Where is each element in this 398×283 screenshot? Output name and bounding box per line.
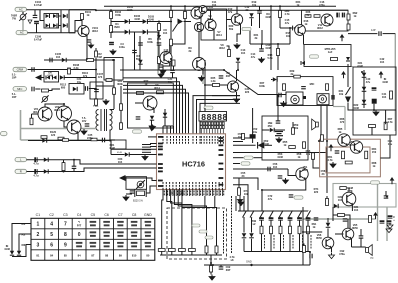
rp102 dot bbox=[139, 183, 141, 185]
svg-text:4.7k: 4.7k bbox=[284, 12, 290, 16]
connector J102 bbox=[16, 31, 28, 35]
ground GND t5 bbox=[234, 43, 240, 49]
ground GND l3 bbox=[150, 125, 156, 131]
wire netR3b bbox=[265, 144, 273, 146]
connector J104 bbox=[13, 87, 27, 91]
capacitor C114 bbox=[257, 11, 262, 13]
wire dj1 t bbox=[327, 218, 329, 223]
wire d161 in bbox=[271, 79, 273, 81]
wire ladderv b1 bbox=[216, 253, 218, 255]
wire rz1 t bbox=[292, 122, 294, 128]
power arrow VCC g1 bbox=[379, 71, 384, 78]
resistor R137 bbox=[30, 118, 33, 125]
svg-text:9013: 9013 bbox=[92, 29, 98, 33]
wire r151 t bbox=[63, 160, 65, 163]
wire d105 bars bbox=[68, 10, 70, 33]
wire bus link x96 bbox=[95, 9, 97, 12]
wire cj1 v bbox=[360, 229, 362, 236]
label LX27 bbox=[87, 133, 93, 140]
wire v107 col bbox=[210, 10, 212, 19]
wire y190 bbox=[262, 189, 303, 191]
ground GND b2 bbox=[237, 198, 242, 203]
junction N32 bbox=[373, 109, 375, 111]
svg-text:10u: 10u bbox=[253, 130, 258, 134]
wire gray audio link bbox=[344, 107, 346, 131]
diode D111 bbox=[157, 35, 161, 39]
resistor R149b bbox=[172, 60, 175, 66]
wire x262 dn bbox=[261, 190, 263, 211]
label L-C132 bbox=[33, 174, 39, 178]
wire ps out top bbox=[69, 9, 96, 11]
svg-text:C5: C5 bbox=[91, 213, 96, 217]
diode D127 bbox=[42, 138, 46, 142]
wire gray q17 drop bbox=[202, 64, 204, 84]
junction N33 bbox=[386, 196, 388, 198]
diode D141 bbox=[10, 251, 14, 255]
capacitor C107 bbox=[87, 40, 92, 42]
resistor R16v0 bbox=[205, 246, 208, 253]
svg-text:10k: 10k bbox=[252, 3, 257, 7]
wire x262 t bbox=[261, 30, 263, 44]
capacitor C111 bbox=[159, 65, 164, 67]
wire xtal top bbox=[126, 178, 157, 181]
diode D105 bbox=[63, 14, 67, 18]
wire J102 feed bbox=[28, 32, 76, 34]
wire v136 emit bbox=[331, 248, 333, 253]
display pins bbox=[201, 129, 223, 134]
ground GND h1 bbox=[330, 162, 336, 168]
label L-V101 bbox=[92, 26, 99, 33]
capacitor C122 bbox=[32, 67, 34, 72]
junction N1 bbox=[170, 5, 172, 7]
label LX49 bbox=[349, 140, 355, 147]
ground GND m4 bbox=[283, 178, 289, 184]
label LX22 bbox=[82, 71, 89, 78]
svg-text:IN40: IN40 bbox=[114, 25, 120, 29]
resistor R175 bbox=[307, 226, 310, 234]
wire v105 base bbox=[159, 57, 160, 59]
label LX51 bbox=[338, 127, 343, 134]
wire cz1 v bbox=[277, 116, 279, 121]
wire h top1 bbox=[385, 110, 387, 124]
wire v135 base bbox=[335, 233, 344, 235]
svg-text:87: 87 bbox=[91, 253, 94, 257]
wire d107 r bbox=[129, 21, 142, 23]
resistor R185 bbox=[294, 75, 301, 78]
transistor V104 bbox=[194, 22, 203, 31]
label LX91 bbox=[338, 195, 343, 202]
wire r107 link bbox=[158, 31, 160, 36]
capacitor C109 bbox=[157, 43, 162, 45]
diode D115 bbox=[293, 26, 298, 31]
capacitor CJ3b bbox=[310, 254, 312, 259]
label LX5 bbox=[164, 48, 169, 55]
label LX74 bbox=[265, 43, 271, 50]
wire v124 base bbox=[135, 102, 143, 104]
label LX75 bbox=[285, 18, 290, 25]
box frame F2 bbox=[317, 94, 329, 105]
wire y95 mid bbox=[212, 95, 240, 97]
wire y33 cap bbox=[348, 33, 377, 35]
label LX33 bbox=[245, 87, 250, 94]
wire netR5 bbox=[233, 157, 244, 159]
svg-text:10k: 10k bbox=[244, 192, 249, 196]
transistor V107 bbox=[205, 19, 216, 30]
resistor R140 bbox=[63, 139, 69, 142]
label LX50 bbox=[372, 147, 377, 154]
IC left pin labels bbox=[158, 136, 163, 187]
capacitor C155 bbox=[306, 217, 311, 220]
label LX88 bbox=[277, 152, 283, 159]
svg-text:470u: 470u bbox=[339, 252, 345, 256]
svg-text:4.7u: 4.7u bbox=[33, 162, 39, 166]
svg-text:0: 0 bbox=[78, 232, 81, 238]
svg-text:47u: 47u bbox=[366, 80, 371, 84]
svg-text:5.6k: 5.6k bbox=[267, 56, 273, 60]
power arrow VCC f1 bbox=[341, 71, 346, 78]
keypad row3 keys bbox=[37, 242, 152, 249]
svg-text:300k: 300k bbox=[117, 82, 123, 86]
wire netR1 bbox=[233, 137, 253, 139]
svg-text:3: 3 bbox=[37, 242, 40, 248]
label LX16 bbox=[119, 42, 125, 49]
wire v131 emit bbox=[303, 179, 306, 190]
wire xtal bot bbox=[126, 193, 132, 195]
capacitor C135 bbox=[138, 43, 143, 45]
net label NET p3 bbox=[294, 196, 303, 199]
svg-text:120: 120 bbox=[51, 133, 56, 137]
wire v122-v123 bbox=[64, 121, 67, 127]
resistor RZ4 bbox=[312, 153, 315, 160]
svg-text:4: 4 bbox=[50, 221, 53, 227]
svg-text:9014: 9014 bbox=[54, 108, 60, 112]
switch S6 bbox=[289, 211, 293, 219]
label str0 bbox=[264, 235, 265, 249]
svg-text:GND: GND bbox=[246, 260, 252, 264]
resistor R143 bbox=[120, 123, 123, 130]
label LX9 bbox=[265, 12, 271, 19]
resistor R187 bbox=[326, 84, 329, 91]
keypad row4 keys bbox=[36, 253, 149, 257]
diode D125 bbox=[73, 87, 77, 91]
wire v106 emit bbox=[202, 70, 204, 75]
wire diag bbox=[224, 70, 286, 95]
wire ladder tail bbox=[210, 255, 212, 265]
wire z y130b bbox=[274, 129, 285, 131]
wire ds top bbox=[204, 108, 206, 112]
wire strings bot bbox=[244, 251, 310, 253]
junction N5 bbox=[95, 9, 97, 11]
wire c119 r bbox=[383, 33, 396, 35]
wire r117 t bbox=[279, 6, 281, 10]
ground GND b1 bbox=[209, 275, 215, 281]
label L-V135 bbox=[352, 223, 358, 230]
svg-text:100k: 100k bbox=[259, 84, 265, 88]
wire r169 b bbox=[210, 272, 212, 275]
svg-text:9012: 9012 bbox=[219, 46, 225, 50]
diode D118 bbox=[301, 61, 305, 65]
label str3 bbox=[293, 235, 294, 249]
arrow play bbox=[178, 19, 184, 25]
svg-text:12P: 12P bbox=[371, 28, 376, 32]
wire c123 r bbox=[35, 88, 40, 90]
capacitor C115 bbox=[259, 49, 264, 51]
wire v101 to y60 bbox=[86, 42, 88, 60]
resistor RZ3 bbox=[303, 142, 306, 149]
svg-text:10P: 10P bbox=[12, 76, 17, 80]
wire bus drop x271 bbox=[270, 6, 272, 70]
svg-text:80: 80 bbox=[146, 253, 149, 257]
wire v107 emit bbox=[213, 30, 215, 41]
net label NET p1 bbox=[244, 156, 253, 159]
IC top pin labels bbox=[163, 136, 224, 144]
label L-G bbox=[382, 77, 388, 84]
capacitor C167 bbox=[332, 95, 334, 100]
wire ci3 v bbox=[385, 191, 387, 196]
svg-text:104: 104 bbox=[163, 31, 168, 35]
resistor R160 bbox=[158, 249, 165, 252]
resistor R174 bbox=[298, 226, 301, 234]
net label PL2 bbox=[199, 230, 207, 233]
net label PL1 bbox=[192, 224, 200, 227]
resistor RH4 bbox=[384, 122, 387, 130]
wire bridge bot bbox=[59, 25, 62, 27]
svg-text:OTE: OTE bbox=[347, 189, 353, 193]
label LX28 bbox=[50, 130, 57, 137]
transistor V121 bbox=[38, 107, 52, 121]
switch SG bbox=[346, 87, 351, 95]
wire sw1 t bbox=[251, 210, 253, 213]
capacitor C150 bbox=[259, 217, 264, 220]
label LX76 bbox=[212, 0, 217, 7]
wire netR6 bbox=[233, 163, 240, 165]
wire v108 base bbox=[227, 19, 232, 21]
wire audio h232 bbox=[303, 231, 322, 233]
switch S-top bbox=[173, 24, 178, 32]
svg-text:9: 9 bbox=[64, 242, 67, 248]
wire h r edge bbox=[380, 135, 390, 158]
wire str1 c bbox=[270, 234, 272, 252]
label L-J103 bbox=[12, 73, 17, 80]
svg-text:10u: 10u bbox=[388, 142, 393, 146]
wire c160 v bbox=[252, 108, 254, 143]
label LX3 bbox=[163, 28, 168, 35]
wire RT101 stub bbox=[22, 12, 24, 14]
resistor R186 bbox=[283, 84, 286, 91]
wire dio1 b bbox=[251, 239, 253, 252]
svg-text:56k: 56k bbox=[136, 57, 141, 61]
svg-text:104: 104 bbox=[338, 198, 343, 202]
switch S7 bbox=[298, 211, 302, 219]
svg-text:MIC: MIC bbox=[17, 87, 22, 91]
label L-Z1 bbox=[268, 121, 273, 128]
junction N7 bbox=[170, 21, 172, 23]
transistor V123 bbox=[67, 120, 81, 134]
junction N2 bbox=[210, 264, 212, 266]
wire r116 b bbox=[277, 56, 279, 71]
wire netR7 bbox=[233, 168, 288, 170]
svg-text:8: 8 bbox=[201, 112, 206, 122]
diode DI1 bbox=[334, 204, 338, 208]
wire v137 emit bbox=[351, 204, 353, 211]
box frame Z bbox=[262, 116, 308, 160]
diode D104 bbox=[53, 24, 57, 28]
label LX8 bbox=[245, 5, 250, 12]
box frame X2 bbox=[126, 177, 147, 190]
resistor R101 bbox=[81, 14, 84, 20]
svg-text:8050: 8050 bbox=[352, 226, 358, 230]
label LX45 bbox=[241, 171, 246, 178]
diode D124 bbox=[60, 75, 64, 79]
svg-text:10V: 10V bbox=[82, 119, 87, 123]
label L-trio bbox=[82, 116, 87, 123]
wire netR8 bbox=[233, 178, 258, 190]
wire g v bbox=[363, 70, 365, 108]
wire T101 bot bbox=[109, 130, 112, 141]
resistor RJ2 bbox=[303, 246, 306, 253]
junction N22 bbox=[204, 84, 206, 86]
wire ic pin2 bbox=[150, 143, 157, 145]
label L-C131 bbox=[33, 162, 39, 166]
wire v125 emit bbox=[236, 92, 238, 97]
box frame D2 bbox=[69, 84, 84, 95]
svg-text:4.7u: 4.7u bbox=[33, 174, 39, 178]
label L-V124 bbox=[154, 83, 160, 90]
ground GND i2 bbox=[387, 223, 393, 229]
svg-text:1M: 1M bbox=[98, 55, 102, 59]
junction f2 bbox=[303, 96, 306, 99]
wire netR4 bbox=[233, 152, 326, 154]
diode D102 bbox=[46, 24, 50, 28]
wire x111 v bbox=[110, 141, 111, 155]
capacitor C119 bbox=[379, 31, 381, 36]
svg-text:104: 104 bbox=[238, 135, 243, 139]
net label NET i1 bbox=[371, 181, 380, 184]
wire audio misc bbox=[303, 244, 304, 246]
transistor V125 bbox=[227, 81, 238, 92]
label LX37 bbox=[339, 89, 344, 96]
wire fan e3 bbox=[166, 126, 168, 134]
capacitor C153 bbox=[288, 217, 293, 220]
wire r102 t bbox=[95, 48, 97, 51]
junction N19 bbox=[289, 27, 291, 29]
trimmer RP102 bbox=[136, 180, 145, 189]
wire d115 r bbox=[297, 27, 300, 29]
capacitor C151 bbox=[269, 217, 274, 220]
capacitor CI3 bbox=[384, 196, 389, 198]
label LX21 bbox=[47, 71, 53, 78]
label LX46 bbox=[273, 162, 278, 169]
label L-R101 bbox=[85, 10, 92, 17]
label L-D141 bbox=[4, 244, 10, 251]
ground GND l1 bbox=[103, 99, 109, 105]
wire ic pin1 bbox=[148, 136, 157, 138]
svg-text:680: 680 bbox=[61, 86, 66, 90]
wire d108 r bbox=[147, 21, 172, 23]
svg-text:C4: C4 bbox=[77, 213, 82, 217]
box frame Y bbox=[104, 58, 123, 81]
capacitor CJ2 bbox=[380, 220, 385, 223]
label str1 bbox=[274, 235, 275, 249]
wire diode join bbox=[12, 251, 26, 257]
resistor R133 bbox=[42, 89, 49, 92]
wire ladderv 1 bbox=[182, 190, 217, 247]
wire c115 t bbox=[261, 44, 263, 49]
wire z y130 bbox=[262, 129, 270, 131]
resistor R173 bbox=[289, 226, 292, 234]
wire str3 b bbox=[289, 220, 291, 226]
connector J105 bbox=[15, 158, 27, 162]
wire v137 col bbox=[348, 188, 350, 192]
wire V101 emit bbox=[86, 36, 88, 43]
label LX53 bbox=[244, 189, 249, 196]
svg-text:47u: 47u bbox=[285, 21, 290, 25]
transistor V124 bbox=[143, 96, 157, 110]
resistor RZ2 bbox=[289, 146, 296, 149]
box frame A bbox=[201, 9, 227, 40]
wire x121 v bbox=[120, 86, 122, 130]
svg-text:9012: 9012 bbox=[317, 26, 323, 30]
battery BZ stack bbox=[275, 132, 283, 136]
svg-text:4148: 4148 bbox=[357, 64, 363, 68]
wire c141 l bbox=[220, 265, 222, 267]
ground GND z1 bbox=[276, 137, 282, 143]
svg-text:R3: R3 bbox=[22, 243, 26, 247]
label LX71 bbox=[229, 24, 234, 31]
svg-text:220u: 220u bbox=[87, 136, 93, 140]
wire diag tail bbox=[285, 92, 287, 95]
wire c109 dn bbox=[158, 46, 160, 57]
wire icbr c bbox=[243, 196, 245, 211]
svg-text:HC716: HC716 bbox=[182, 160, 205, 169]
wire fan extra1 bbox=[163, 125, 174, 127]
svg-text:4148: 4148 bbox=[353, 106, 359, 110]
junction N30 bbox=[210, 262, 212, 264]
label LX58 bbox=[181, 191, 184, 195]
resistor R123 bbox=[347, 14, 350, 20]
resistor RG1 bbox=[390, 91, 393, 99]
wire r109 bus bbox=[170, 6, 172, 10]
svg-text:YD: YD bbox=[370, 257, 374, 260]
svg-text:1uF: 1uF bbox=[328, 50, 333, 54]
label L-C112 bbox=[226, 71, 231, 78]
svg-text:104: 104 bbox=[212, 3, 217, 7]
label LX40 bbox=[366, 77, 371, 84]
resistor R162 bbox=[179, 249, 186, 252]
label L-V103 bbox=[207, 5, 214, 12]
IC right pin labels bbox=[219, 137, 224, 186]
svg-text:7: 7 bbox=[64, 221, 67, 227]
wire gray bus trio C bbox=[21, 139, 116, 141]
label str5 bbox=[311, 235, 312, 249]
wire x205 v bbox=[204, 60, 206, 108]
wire y77 r bbox=[64, 77, 96, 79]
label LX44 bbox=[306, 149, 311, 156]
wire netR3 bbox=[233, 144, 256, 146]
transistor V134 bbox=[350, 141, 362, 153]
svg-text:0.47uF: 0.47uF bbox=[34, 3, 43, 7]
switch S8 bbox=[307, 211, 311, 219]
transistor V110 bbox=[295, 25, 306, 36]
wire y140 row bbox=[28, 140, 110, 142]
svg-text:AC: AC bbox=[20, 31, 24, 35]
resistor R136 bbox=[106, 79, 112, 82]
capacitor C129 bbox=[136, 117, 141, 119]
svg-text:89: 89 bbox=[119, 253, 122, 257]
svg-text:47u: 47u bbox=[251, 55, 256, 59]
wire gray bus trio A bbox=[20, 110, 22, 129]
wire ladder common bbox=[160, 254, 222, 256]
